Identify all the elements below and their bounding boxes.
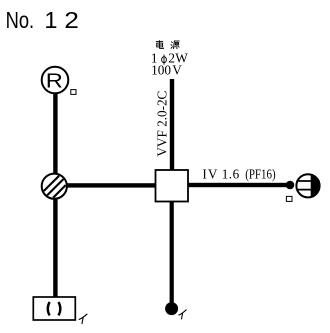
- svg-text:V: V: [172, 63, 182, 78]
- ceiling rose (angular) イ: [33, 297, 75, 320]
- title No.12: [6, 7, 79, 34]
- label イ (ceiling rose): [79, 314, 88, 324]
- svg-text:(PF16): (PF16): [245, 166, 275, 181]
- phi symbol: [162, 55, 167, 65]
- svg-text:R: R: [46, 69, 63, 92]
- svg-text:IV: IV: [202, 166, 218, 181]
- label ロ (lamp): [71, 90, 76, 95]
- lamp receptacle R: [42, 67, 69, 94]
- svg-text:No.: No.: [6, 7, 34, 33]
- wire: junction box to ceiling rose: [53, 199, 57, 297]
- outlet box (square): [156, 170, 189, 202]
- junction box (hatched circle): [42, 174, 67, 199]
- svg-text:1.6: 1.6: [222, 166, 240, 181]
- svg-text:100: 100: [151, 63, 171, 78]
- power source label 電源 1φ2W 100V: [151, 40, 188, 77]
- wire: outlet box to receptacle (horizontal): [188, 183, 287, 187]
- kanji 源: [171, 41, 180, 49]
- svg-text:2: 2: [64, 7, 79, 33]
- conduit label IV 1.6 (PF16): [202, 166, 275, 181]
- switch イ (dot): [165, 302, 178, 315]
- wire: lamp to junction box: [53, 93, 57, 174]
- receptacle (wall outlet) symbol: [296, 174, 319, 197]
- wire: outlet box down to switch: [170, 202, 174, 304]
- label イ (switch): [179, 310, 187, 320]
- kanji 電: [156, 40, 164, 48]
- label ロ (receptacle): [286, 196, 292, 201]
- svg-text:VVF 2.0-2C: VVF 2.0-2C: [155, 90, 170, 156]
- wire: power feed vertical: [170, 79, 174, 170]
- svg-text:1: 1: [44, 7, 57, 33]
- junction dot before receptacle: [286, 181, 295, 190]
- wire: junction box to outlet box (horizontal): [65, 183, 156, 187]
